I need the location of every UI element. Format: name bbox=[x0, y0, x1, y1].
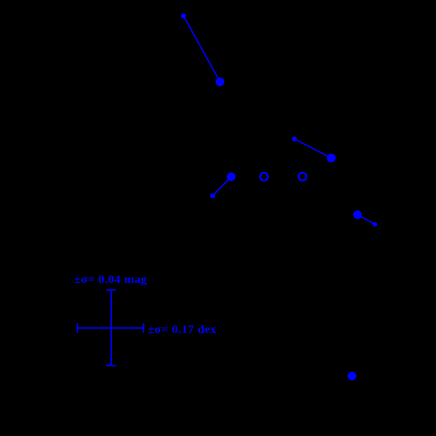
connecting line bbox=[358, 215, 376, 225]
error cross vertical bbox=[110, 290, 112, 366]
data point pair E (large + small marker) bbox=[353, 210, 362, 219]
connecting line bbox=[184, 16, 221, 82]
open circle marker D2 bbox=[299, 173, 307, 181]
open circle marker D1 bbox=[260, 173, 268, 181]
connecting line bbox=[213, 177, 232, 196]
error cross horizontal bbox=[78, 327, 144, 329]
isolated data point F bbox=[348, 372, 357, 381]
data point pair B (small + large marker) bbox=[292, 137, 297, 142]
connecting line bbox=[295, 139, 332, 158]
data point pair C (small + large marker) bbox=[210, 193, 215, 198]
label sigma dex bbox=[148, 322, 217, 337]
label sigma mag bbox=[74, 272, 147, 287]
data point pair A (small + large marker) bbox=[181, 13, 186, 18]
